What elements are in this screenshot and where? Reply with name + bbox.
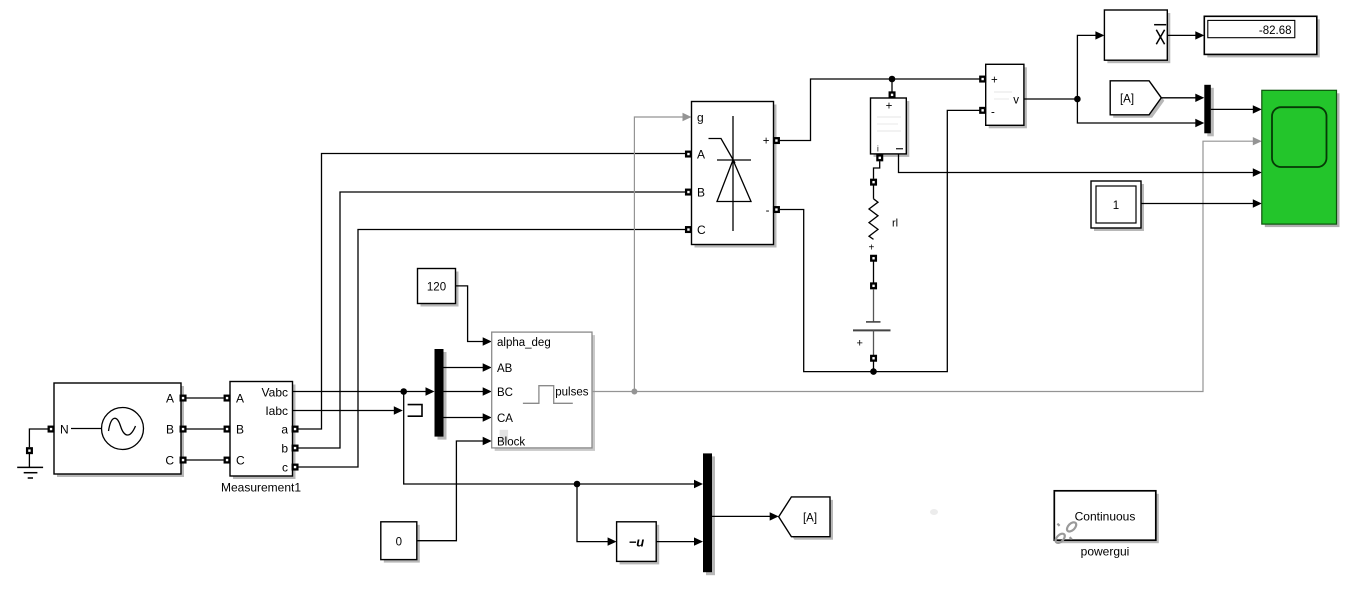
wire bottom mux to goto A	[712, 512, 779, 520]
wire a to bridge A	[298, 154, 687, 430]
svg-text:B: B	[697, 186, 705, 200]
wire v out with junction	[1024, 96, 1081, 103]
svg-text:Block: Block	[497, 437, 525, 449]
svg-text:[A]: [A]	[803, 512, 817, 524]
wire to battery	[873, 289, 875, 322]
svg-text:AB: AB	[497, 363, 513, 375]
wire branch to negate block	[577, 484, 617, 546]
svg-text:+: +	[763, 136, 770, 148]
wire source C to measurement C	[187, 459, 224, 461]
svg-text:i: i	[877, 145, 879, 154]
wire junction down to current measurement	[891, 79, 893, 92]
wire source B to measurement B	[187, 428, 224, 430]
display -82.68	[1204, 16, 1320, 57]
wire current output to scope	[899, 154, 1262, 177]
wire -u to bottom mux	[656, 537, 703, 545]
voltage measurement block	[979, 64, 1027, 128]
node port	[870, 255, 877, 262]
svg-text:+: +	[886, 101, 893, 113]
from tag A	[1110, 81, 1164, 118]
svg-text:A: A	[166, 392, 174, 406]
wire mean to display	[1167, 31, 1204, 39]
wire 0 to Block input	[417, 437, 492, 541]
wire c to bridge C	[298, 230, 687, 468]
svg-text:B: B	[166, 423, 174, 437]
wire b to bridge B	[298, 192, 687, 448]
svg-text:120: 120	[427, 282, 446, 294]
svg-text:0: 0	[396, 537, 402, 549]
svg-text:-: -	[766, 205, 770, 217]
svg-text:C: C	[165, 454, 174, 468]
wire from tag to right mux	[1161, 94, 1204, 102]
svg-text:alpha_deg: alpha_deg	[497, 337, 551, 349]
wire bottom junction to voltage measurement minus	[874, 110, 981, 371]
node port	[870, 355, 877, 362]
svg-text:Vabc: Vabc	[262, 386, 288, 400]
mean block	[1104, 10, 1170, 63]
svg-text:rl: rl	[892, 218, 898, 230]
wire current meas to series branch	[874, 161, 880, 179]
svg-text:-: -	[991, 107, 995, 119]
pulse generator block	[492, 332, 595, 451]
svg-text:N: N	[60, 423, 69, 437]
svg-text:1: 1	[1113, 200, 1119, 212]
wire right mux to scope	[1211, 105, 1262, 113]
ground	[17, 429, 49, 478]
wire demux to CA	[444, 413, 492, 421]
svg-text:B: B	[236, 423, 244, 437]
svg-text:A: A	[236, 392, 244, 406]
wire to bottom junction	[873, 362, 875, 372]
powergui block	[1054, 491, 1159, 559]
svg-text:−u: −u	[629, 535, 645, 550]
constant 120	[418, 269, 459, 307]
wire bridge minus to bottom junction	[780, 210, 874, 372]
svg-text:a: a	[281, 423, 288, 437]
measurement block Measurement1	[221, 382, 301, 495]
wire bridge plus to voltage measurement plus	[780, 76, 980, 141]
wire Vabc to demux	[293, 387, 435, 395]
svg-text:c: c	[282, 461, 288, 475]
svg-text:Continuous: Continuous	[1075, 509, 1136, 523]
pulses gray wire	[592, 137, 1262, 395]
svg-text:BC: BC	[497, 387, 513, 399]
wire constant 1 to scope	[1141, 199, 1262, 207]
wire demux to BC	[444, 387, 492, 395]
wire Vabc branch down to bottom mux	[404, 392, 703, 489]
svg-text:A: A	[697, 148, 705, 162]
demux	[435, 349, 447, 440]
wire 120 to alpha_deg	[456, 286, 492, 346]
thyristor bridge block	[685, 102, 780, 248]
constant 0	[381, 522, 420, 563]
svg-text:CA: CA	[497, 413, 513, 425]
wire source A to measurement A	[187, 397, 224, 399]
wire demux to AB	[444, 363, 492, 371]
current measurement block	[871, 91, 910, 161]
goto tag A	[779, 497, 833, 540]
node port	[870, 179, 877, 186]
thyristor icon	[732, 116, 734, 231]
svg-text:powergui: powergui	[1081, 545, 1130, 559]
svg-text:C: C	[236, 454, 245, 468]
faint annotation mark	[930, 509, 938, 515]
wire junction down to right mux	[1077, 99, 1204, 127]
right mux	[1204, 85, 1214, 137]
svg-text:v: v	[1013, 95, 1019, 107]
svg-text:Iabc: Iabc	[265, 404, 288, 418]
wire	[873, 262, 875, 283]
svg-text:+: +	[857, 338, 863, 350]
svg-text:b: b	[281, 442, 288, 456]
svg-text:+: +	[991, 75, 998, 87]
dc source battery	[853, 322, 891, 350]
svg-text:Measurement1: Measurement1	[221, 481, 301, 495]
svg-text:+: +	[869, 243, 875, 254]
wire Iabc to terminator	[293, 406, 403, 414]
svg-text:C: C	[697, 223, 706, 237]
wire to resistor	[873, 186, 875, 199]
math function -u	[617, 522, 660, 565]
bottom mux	[703, 453, 715, 575]
resistor rl	[869, 199, 898, 240]
wire junction up to mean	[1077, 31, 1104, 99]
constant 1	[1091, 181, 1144, 231]
svg-text:g: g	[697, 111, 704, 125]
wire battery to node	[873, 330, 875, 355]
svg-text:pulses: pulses	[555, 387, 588, 399]
terminator	[408, 405, 422, 417]
gray wire branch to gate g	[634, 113, 691, 392]
svg-text:[A]: [A]	[1120, 93, 1134, 105]
junction bottom	[870, 368, 877, 375]
svg-text:-82.68: -82.68	[1259, 25, 1292, 37]
three-phase source block	[48, 383, 187, 477]
scope	[1262, 90, 1340, 227]
node port	[870, 282, 877, 289]
